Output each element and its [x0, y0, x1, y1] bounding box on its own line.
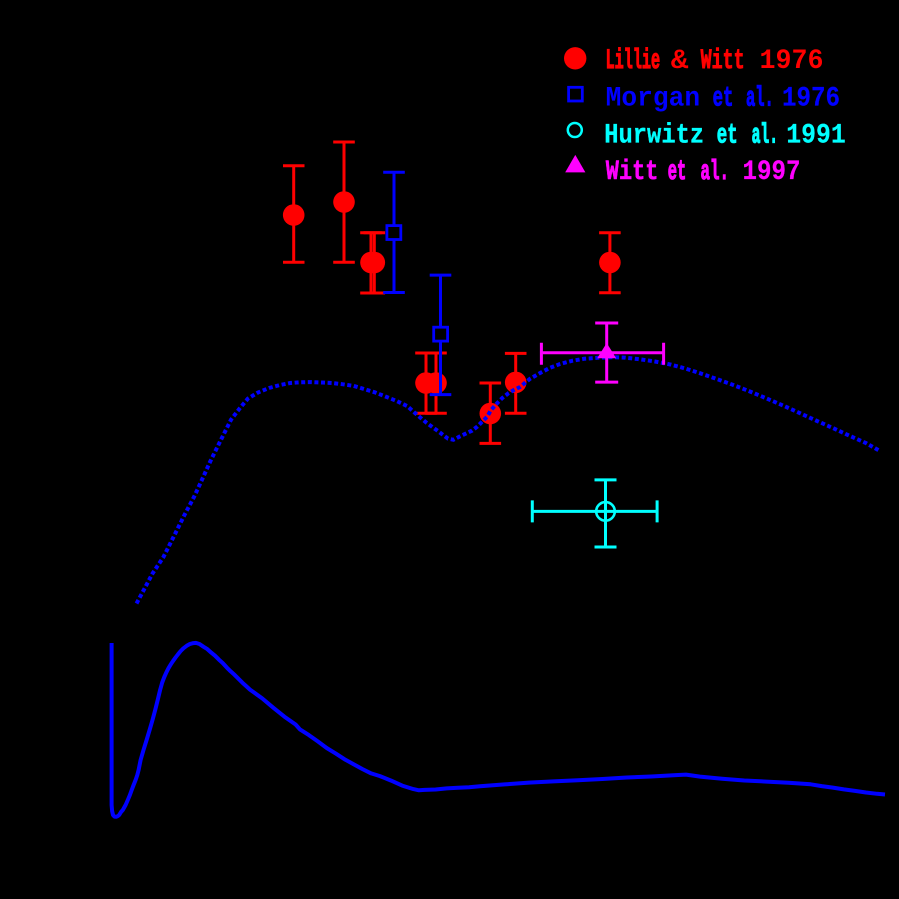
svg-text:1976: 1976: [760, 46, 824, 77]
svg-text:1976: 1976: [782, 83, 840, 114]
svg-text:Witt: Witt: [701, 46, 745, 77]
svg-text:Lillie: Lillie: [606, 46, 661, 77]
svg-text:1997: 1997: [743, 157, 801, 188]
svg-text:et: et: [668, 157, 687, 188]
svg-text:Morgan: Morgan: [606, 83, 701, 114]
svg-text:Witt: Witt: [606, 157, 659, 188]
svg-text:et: et: [717, 121, 738, 152]
svg-text:al.: al.: [701, 157, 730, 188]
svg-text:Hurwitz: Hurwitz: [604, 121, 704, 152]
svg-text:al.: al.: [746, 83, 774, 114]
svg-text:al.: al.: [752, 121, 778, 152]
svg-text:&: &: [671, 46, 689, 77]
svg-text:1991: 1991: [786, 121, 846, 152]
svg-text:et: et: [713, 83, 734, 114]
